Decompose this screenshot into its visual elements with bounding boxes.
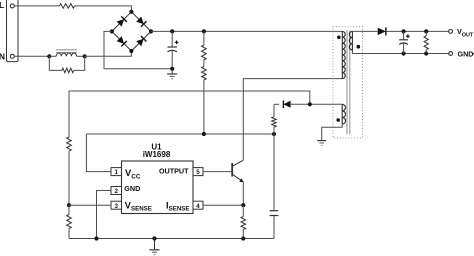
transistor Q1 emitter — [232, 174, 243, 182]
node preload bottom — [424, 51, 428, 55]
wire secondary top — [352, 30, 377, 32]
svg-text:GND: GND — [458, 49, 474, 58]
node startup-VCC — [202, 132, 206, 136]
wire VSENSE feedback line — [69, 91, 310, 104]
svg-text:4: 4 — [196, 203, 200, 210]
wire emitter down — [242, 182, 244, 205]
node VSENSE-aux tap — [308, 102, 312, 106]
wire — [203, 60, 205, 67]
label GND pin — [124, 184, 140, 193]
label iW1698 — [143, 150, 171, 159]
wire pin3 VSENSE — [69, 204, 111, 206]
wire startup to VCC rail — [203, 80, 205, 134]
wire collector to primary — [243, 79, 342, 161]
label VCC pin — [125, 167, 141, 180]
label U1 — [151, 142, 162, 151]
node bulk cap bottom — [170, 67, 174, 71]
svg-text:N: N — [0, 51, 5, 61]
wire primary ground bus — [69, 238, 274, 240]
wire N to choke — [14, 55, 49, 57]
wire HV bus — [151, 30, 342, 32]
fusible resistor RF1 — [59, 4, 74, 9]
wire aux line left — [274, 103, 279, 105]
label ISENSE pin — [166, 201, 190, 213]
pin 2 box — [111, 187, 122, 196]
capacitor C2 (VCC bypass) — [270, 134, 279, 239]
capacitor C3 (output, polarized) — [399, 31, 410, 53]
node bridge bottom — [129, 49, 133, 53]
bridge diode D3 (left-bottom) — [117, 36, 127, 46]
svg-text:L: L — [0, 0, 4, 10]
wire secondary output — [386, 30, 449, 32]
terminal GND circle — [449, 52, 453, 56]
svg-text:OUTPUT: OUTPUT — [159, 167, 189, 176]
diode D5 (VCC rectifier) — [283, 101, 290, 109]
node VSENSE tap — [67, 203, 71, 207]
node pin2 gnd — [94, 236, 98, 240]
node output cap bottom — [402, 51, 406, 55]
wire pin4 ISENSE — [203, 204, 243, 206]
primary ground symbol 1 — [167, 69, 177, 79]
resistor R9 (preload) — [424, 31, 428, 53]
wire VCC rail to pin1 — [86, 134, 111, 172]
node bridge right — [149, 29, 153, 33]
bridge arm top-right wire — [131, 12, 151, 32]
wire RF1 to bridge top — [75, 6, 132, 12]
resistor R8 (VCC series) — [272, 104, 277, 134]
node emitter-ISENSE — [241, 203, 245, 207]
op-amp U1 body (iW1698 controller) — [122, 161, 194, 214]
resistor R7 (current sense) — [241, 205, 246, 238]
secondary polarity dot — [357, 45, 361, 49]
transistor Q1 collector — [232, 160, 243, 166]
terminal L pin circle — [10, 4, 14, 8]
diode D6 (output rectifier) — [378, 27, 386, 35]
label L — [0, 0, 4, 10]
aux polarity dot — [336, 118, 340, 122]
bridge arm left-top wire — [112, 12, 132, 32]
primary polarity dot — [337, 36, 341, 40]
wire aux bottom to ground — [322, 124, 343, 140]
transformer secondary winding — [349, 31, 352, 50]
terminal N pin circle — [10, 54, 14, 58]
node output cap top — [402, 29, 406, 33]
label VSENSE pin — [125, 201, 152, 213]
bridge diode D1 (left-top) — [117, 16, 127, 26]
svg-text:iW1698: iW1698 — [143, 150, 171, 159]
svg-text:3: 3 — [114, 203, 118, 210]
bridge arm left-bottom wire — [112, 31, 132, 51]
svg-text:GND: GND — [124, 184, 140, 193]
wire — [77, 55, 85, 57]
pin 3 box — [111, 201, 122, 210]
resistor R6 (VSENSE lower) — [67, 205, 72, 238]
node VCC diode junction — [272, 132, 276, 136]
label VOUT — [457, 27, 474, 38]
transistor Q1 base bar — [231, 163, 233, 177]
transformer T1 dashed outline — [333, 27, 363, 138]
node bridge left — [110, 29, 114, 33]
pin 1 box — [111, 168, 122, 177]
resistor R2 (parallel damping) — [49, 56, 84, 72]
connector J1 (AC input L/N) — [7, 0, 19, 62]
label N — [0, 51, 5, 61]
node sense res gnd — [241, 236, 245, 240]
bridge diode D2 (top-right) — [136, 17, 146, 27]
pin 4 box — [193, 201, 203, 210]
bridge diode D4 (bottom-right) — [136, 36, 146, 46]
svg-text:2: 2 — [114, 188, 118, 195]
label GND output — [458, 49, 474, 58]
wire — [68, 151, 70, 205]
node N-choke right — [83, 54, 87, 58]
primary ground symbol 2 — [150, 239, 160, 255]
wire N to bridge bottom — [85, 51, 132, 56]
bridge arm bottom-right wire — [131, 31, 151, 51]
wire L to fusible resistor — [14, 5, 59, 7]
wire divider top — [68, 91, 70, 137]
resistor R3 (startup upper) — [202, 31, 207, 60]
svg-text:1: 1 — [114, 169, 118, 176]
transformer auxiliary winding — [342, 104, 345, 124]
wire pin2 GND — [97, 191, 112, 239]
node bridge top — [129, 10, 133, 14]
resistor R4 (startup lower) — [202, 67, 207, 81]
choke core lines — [56, 50, 76, 53]
node startup top — [202, 29, 206, 33]
node gnd symbol — [152, 236, 156, 240]
transformer core — [347, 30, 350, 134]
label OUTPUT pin — [159, 167, 189, 176]
wire — [49, 55, 56, 57]
resistor R5 (VSENSE upper) — [67, 137, 72, 151]
node preload top — [424, 29, 428, 33]
transformer primary winding — [342, 31, 345, 78]
inductor L1 (filter choke) — [56, 53, 76, 56]
wire bridge negative return — [104, 31, 171, 68]
wire VCC rail — [86, 133, 274, 135]
primary ground symbol 3 — [317, 140, 326, 145]
wire secondary bottom — [352, 50, 448, 54]
capacitor C1 (bulk, polarized) — [168, 31, 179, 68]
terminal VOUT circle — [449, 30, 453, 34]
wire pin5 OUTPUT to base — [203, 171, 232, 173]
pin 5 box — [193, 168, 203, 177]
node N-choke left — [47, 54, 51, 58]
node bulk cap top — [170, 29, 174, 33]
svg-text:5: 5 — [196, 169, 200, 176]
wire aux line right — [291, 103, 342, 105]
